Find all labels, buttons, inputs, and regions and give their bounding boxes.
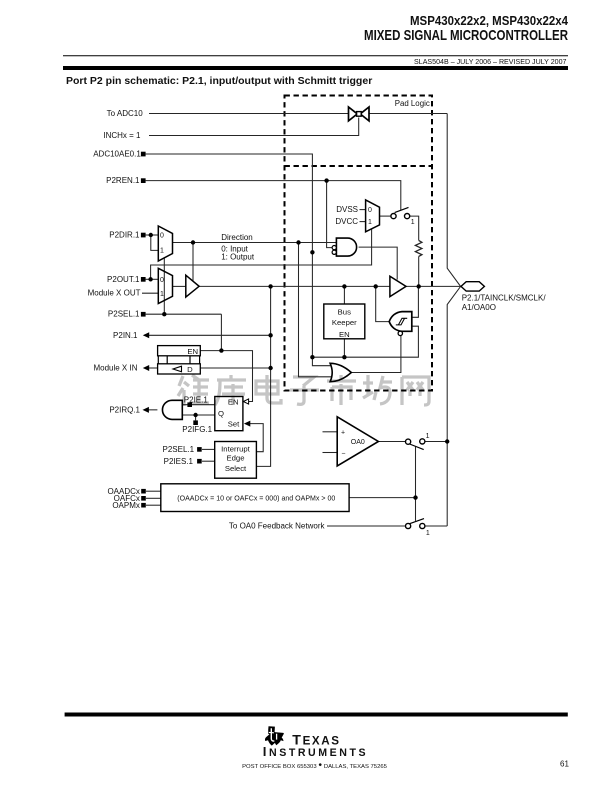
svg-text:D: D — [187, 365, 193, 374]
svg-text:INCHx = 1: INCHx = 1 — [103, 131, 141, 140]
svg-text:1: 1 — [368, 219, 372, 226]
svg-text:A1/OA0O: A1/OA0O — [462, 303, 496, 312]
svg-text:P2DIR.1: P2DIR.1 — [109, 231, 140, 240]
svg-text:(OAADCx = 10 or OAFCx = 000) a: (OAADCx = 10 or OAFCx = 000) and OAPMx >… — [177, 495, 335, 502]
svg-text:P2REN.1: P2REN.1 — [106, 176, 140, 185]
svg-text:POST OFFICE BOX 655303 ● DALLA: POST OFFICE BOX 655303 ● DALLAS, TEXAS 7… — [242, 761, 388, 770]
svg-text:ADC10AE0.1: ADC10AE0.1 — [93, 150, 141, 159]
svg-text:Module X IN: Module X IN — [93, 364, 137, 373]
svg-text:+: + — [341, 429, 345, 436]
svg-text:P2IFG.1: P2IFG.1 — [182, 425, 212, 434]
svg-text:Pad Logic: Pad Logic — [395, 99, 430, 108]
svg-text:Q: Q — [218, 409, 224, 418]
svg-text:P2IE.1: P2IE.1 — [184, 395, 209, 404]
svg-text:Set: Set — [228, 420, 240, 429]
svg-text:Bus: Bus — [338, 308, 351, 317]
svg-text:0: 0 — [160, 277, 164, 284]
svg-text:Select: Select — [225, 464, 247, 473]
svg-text:0: 0 — [160, 232, 164, 239]
svg-text:P2IRQ.1: P2IRQ.1 — [109, 405, 140, 414]
svg-text:1: 1 — [160, 248, 164, 255]
svg-text:P2SEL.1: P2SEL.1 — [108, 310, 140, 319]
svg-text:1: Output: 1: Output — [221, 252, 255, 261]
svg-text:OAPMx: OAPMx — [112, 501, 140, 510]
svg-text:SLAS504B – JULY 2006 – REVISED: SLAS504B – JULY 2006 – REVISED JULY 2007 — [414, 58, 567, 66]
svg-text:Direction: Direction — [221, 233, 253, 242]
svg-text:Edge: Edge — [227, 454, 245, 463]
svg-text:61: 61 — [560, 759, 569, 768]
svg-text:EN: EN — [339, 330, 350, 339]
svg-text:P2SEL.1: P2SEL.1 — [163, 445, 195, 454]
svg-text:MIXED SIGNAL MICROCONTROLLER: MIXED SIGNAL MICROCONTROLLER — [364, 27, 568, 44]
svg-text:EN: EN — [187, 347, 198, 356]
svg-text:1: 1 — [426, 433, 430, 440]
svg-text:To OA0 Feedback Network: To OA0 Feedback Network — [229, 522, 326, 531]
svg-text:1: 1 — [411, 219, 415, 226]
svg-text:DVSS: DVSS — [336, 205, 358, 214]
svg-text:EN: EN — [228, 398, 239, 407]
svg-text:INSTRUMENTS: INSTRUMENTS — [263, 744, 368, 759]
svg-text:To ADC10: To ADC10 — [107, 109, 144, 118]
svg-text:Keeper: Keeper — [332, 318, 357, 327]
svg-text:P2IN.1: P2IN.1 — [113, 331, 138, 340]
svg-text:0: 0 — [368, 207, 372, 214]
svg-text:MSP430x22x2, MSP430x22x4: MSP430x22x2, MSP430x22x4 — [410, 13, 569, 28]
svg-text:OA0: OA0 — [351, 439, 365, 446]
svg-text:Port P2 pin schematic: P2.1, i: Port P2 pin schematic: P2.1, input/outpu… — [66, 75, 372, 87]
svg-text:P2.1/TAINCLK/SMCLK/: P2.1/TAINCLK/SMCLK/ — [462, 293, 547, 302]
svg-text:Interrupt: Interrupt — [221, 445, 250, 454]
svg-text:−: − — [341, 450, 345, 457]
svg-text:1: 1 — [160, 291, 164, 298]
svg-text:P2OUT.1: P2OUT.1 — [107, 275, 140, 284]
svg-text:P2IES.1: P2IES.1 — [164, 457, 194, 466]
svg-text:Module X OUT: Module X OUT — [88, 289, 141, 298]
svg-text:DVCC: DVCC — [335, 217, 358, 226]
svg-text:1: 1 — [426, 530, 430, 537]
